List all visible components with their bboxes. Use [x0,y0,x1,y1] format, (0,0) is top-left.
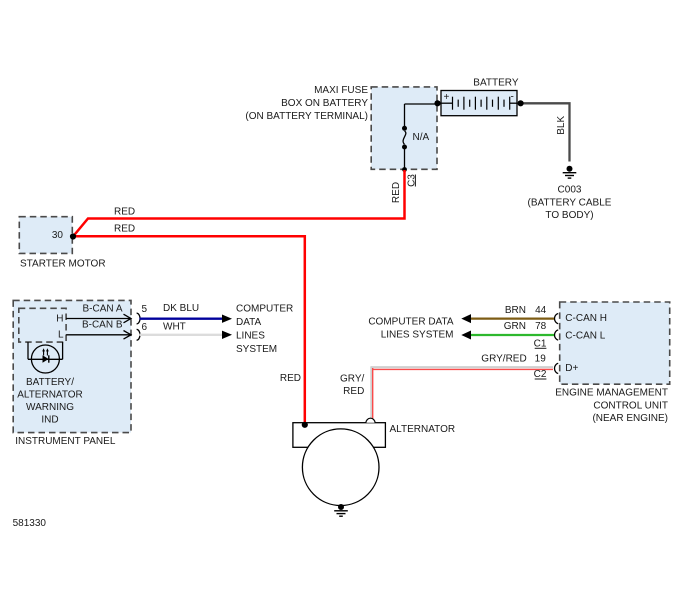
svg-text:D+: D+ [565,363,578,374]
svg-text:CONTROL UNIT: CONTROL UNIT [593,400,668,411]
svg-text:COMPUTER: COMPUTER [236,304,293,315]
svg-text:H: H [56,313,63,324]
svg-text:ALTERNATOR: ALTERNATOR [390,424,456,435]
svg-text:RED: RED [114,206,135,217]
svg-text:BATTERY/: BATTERY/ [26,377,74,388]
svg-text:MAXI FUSE: MAXI FUSE [314,85,368,96]
svg-text:RED: RED [391,182,402,203]
svg-text:GRN: GRN [504,321,526,332]
svg-text:(BATTERY CABLE: (BATTERY CABLE [528,197,612,208]
svg-text:ALTERNATOR: ALTERNATOR [17,390,83,401]
svg-text:COMPUTER DATA: COMPUTER DATA [368,317,454,328]
svg-text:L: L [58,330,64,341]
svg-text:+: + [444,92,450,103]
svg-text:(NEAR ENGINE): (NEAR ENGINE) [592,413,668,424]
svg-text:B-CAN A: B-CAN A [82,304,122,315]
svg-text:581330: 581330 [13,518,47,529]
svg-text:5: 5 [142,304,148,315]
svg-text:19: 19 [535,354,547,365]
svg-text:BRN: BRN [505,305,526,316]
svg-text:78: 78 [535,321,547,332]
svg-text:GRY/RED: GRY/RED [481,354,526,365]
svg-text:SYSTEM: SYSTEM [236,344,277,355]
svg-text:-: - [511,92,514,103]
svg-text:N/A: N/A [413,132,430,143]
svg-text:C-CAN H: C-CAN H [565,313,607,324]
svg-text:LINES: LINES [236,331,265,342]
svg-text:C2: C2 [534,369,547,380]
svg-text:LINES SYSTEM: LINES SYSTEM [381,330,454,341]
svg-text:B-CAN B: B-CAN B [82,320,123,331]
svg-text:30: 30 [52,230,64,241]
svg-text:C003: C003 [558,185,582,196]
svg-text:WHT: WHT [163,321,186,332]
svg-text:BLK: BLK [556,116,567,135]
svg-text:DATA: DATA [236,317,262,328]
svg-text:TO BODY): TO BODY) [545,210,593,221]
svg-text:RED: RED [343,386,364,397]
svg-text:WARNING: WARNING [26,402,74,413]
svg-text:DK BLU: DK BLU [163,303,199,314]
svg-text:44: 44 [535,305,547,316]
svg-text:C1: C1 [534,338,547,349]
svg-text:BATTERY: BATTERY [473,77,519,88]
svg-text:(ON BATTERY TERMINAL): (ON BATTERY TERMINAL) [245,111,368,122]
svg-text:6: 6 [142,322,148,333]
svg-text:STARTER MOTOR: STARTER MOTOR [20,259,106,270]
svg-text:C3: C3 [407,174,418,187]
svg-text:GRY/: GRY/ [340,374,364,385]
svg-text:RED: RED [280,373,301,384]
svg-text:C-CAN L: C-CAN L [565,331,605,342]
svg-text:RED: RED [114,223,135,234]
svg-text:IND: IND [41,415,58,426]
svg-text:ENGINE MANAGEMENT: ENGINE MANAGEMENT [555,388,668,399]
svg-text:INSTRUMENT PANEL: INSTRUMENT PANEL [15,436,116,447]
svg-text:BOX ON BATTERY: BOX ON BATTERY [281,98,368,109]
